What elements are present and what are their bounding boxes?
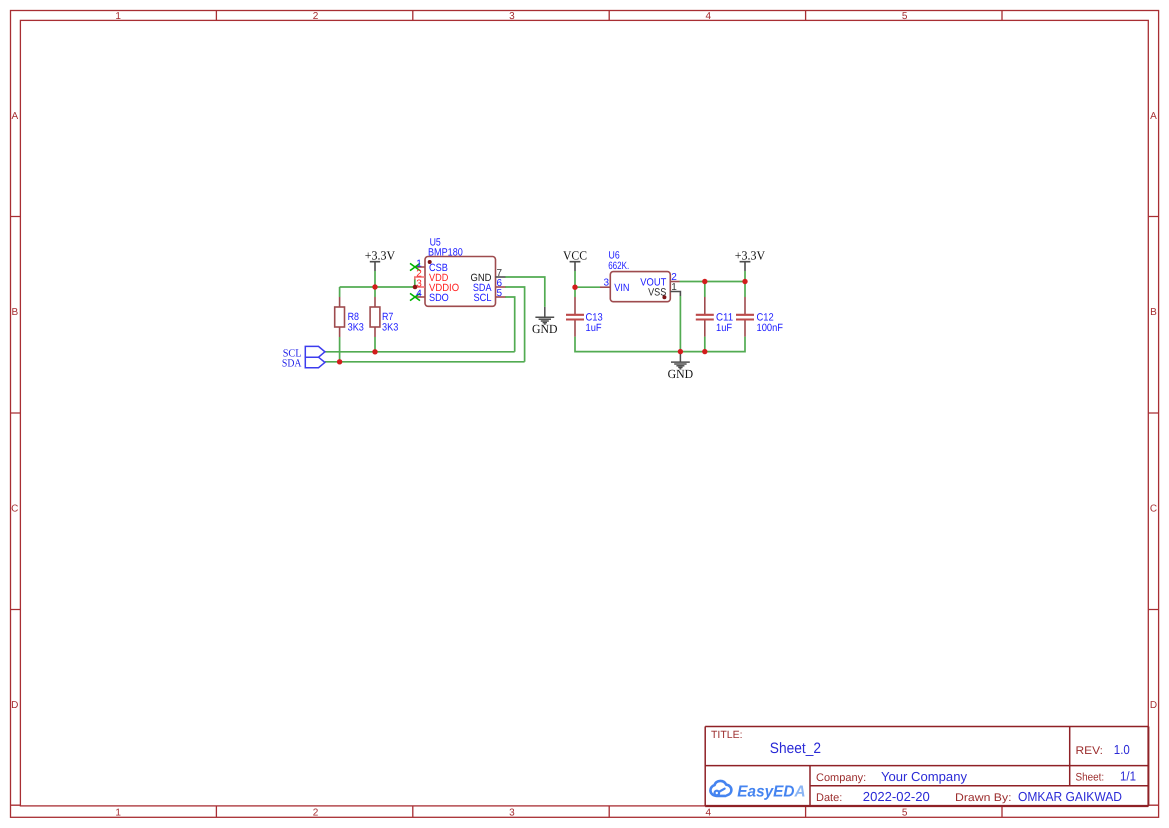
svg-text:Sheet_2: Sheet_2: [770, 740, 821, 757]
svg-text:4: 4: [416, 289, 422, 300]
svg-text:1.0: 1.0: [1114, 742, 1130, 757]
svg-text:+3.3V: +3.3V: [735, 249, 765, 263]
svg-text:2: 2: [313, 808, 319, 819]
svg-text:D: D: [1150, 700, 1157, 711]
svg-text:4: 4: [706, 808, 712, 819]
svg-text:1: 1: [671, 282, 677, 293]
svg-text:5: 5: [497, 288, 503, 299]
svg-text:2022-02-20: 2022-02-20: [863, 789, 930, 804]
svg-text:1: 1: [115, 808, 121, 819]
svg-text:+3.3V: +3.3V: [365, 249, 395, 263]
svg-text:BMP180: BMP180: [428, 247, 463, 259]
svg-text:VCC: VCC: [563, 249, 587, 263]
svg-text:5: 5: [902, 808, 908, 819]
svg-text:2: 2: [313, 11, 319, 22]
svg-text:TITLE:: TITLE:: [711, 729, 743, 741]
svg-text:REV:: REV:: [1076, 745, 1104, 757]
svg-text:OMKAR GAIKWAD: OMKAR GAIKWAD: [1018, 789, 1122, 804]
svg-text:1uF: 1uF: [716, 322, 732, 334]
svg-text:SDA: SDA: [282, 358, 302, 370]
svg-text:3: 3: [509, 11, 515, 22]
svg-text:B: B: [11, 307, 18, 318]
svg-text:3: 3: [603, 277, 609, 288]
svg-text:1: 1: [115, 11, 121, 22]
svg-text:SCL: SCL: [474, 292, 492, 304]
svg-text:5: 5: [902, 11, 908, 22]
svg-text:Sheet:: Sheet:: [1076, 772, 1105, 784]
svg-text:A: A: [1150, 111, 1157, 122]
svg-text:C: C: [11, 504, 18, 515]
svg-text:B: B: [1150, 307, 1157, 318]
svg-text:1/1: 1/1: [1120, 769, 1136, 784]
svg-text:SDO: SDO: [429, 292, 449, 304]
svg-text:3K3: 3K3: [348, 322, 364, 334]
svg-text:A: A: [11, 111, 18, 122]
svg-text:3: 3: [509, 808, 515, 819]
svg-text:Company:: Company:: [816, 772, 866, 784]
svg-text:4: 4: [706, 11, 712, 22]
svg-text:D: D: [11, 700, 18, 711]
svg-text:1uF: 1uF: [586, 322, 602, 334]
svg-text:662K.: 662K.: [608, 260, 629, 272]
svg-text:EasyEDA: EasyEDA: [737, 784, 805, 801]
svg-text:Date:: Date:: [816, 792, 842, 804]
svg-text:VSS: VSS: [648, 286, 666, 298]
svg-text:C: C: [1150, 504, 1157, 515]
svg-text:Your Company: Your Company: [881, 769, 968, 784]
svg-text:100nF: 100nF: [757, 322, 784, 334]
svg-text:3K3: 3K3: [382, 322, 398, 334]
svg-text:GND: GND: [532, 322, 558, 336]
svg-text:Drawn By:: Drawn By:: [955, 792, 1012, 804]
svg-text:VIN: VIN: [614, 282, 629, 294]
svg-text:GND: GND: [668, 367, 694, 381]
